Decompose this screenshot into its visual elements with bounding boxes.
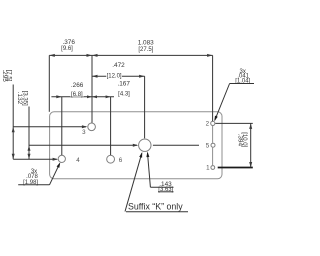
arrows .295 bbox=[12, 127, 15, 159]
svg-text:[7.5]: [7.5] bbox=[5, 70, 11, 82]
right extension line at hole1 level (thick) bbox=[218, 167, 253, 169]
svg-text:4: 4 bbox=[76, 157, 80, 164]
row extension line at hole4 level bbox=[13, 158, 57, 160]
shelf for .143 label bbox=[150, 186, 173, 188]
label .295 [7.5] (rotated) bbox=[1, 69, 12, 82]
dimension line .376 / 1.083 bbox=[49, 54, 212, 56]
leader to hole 2 bbox=[215, 84, 230, 121]
svg-text:[27.5]: [27.5] bbox=[138, 47, 153, 53]
arrow at hole4 left edge bbox=[53, 158, 59, 161]
arrows .132 bbox=[28, 145, 31, 159]
relay body outline bbox=[50, 112, 222, 179]
note Suffix K only bbox=[128, 202, 183, 212]
arrow at hole K left edge bbox=[133, 144, 139, 147]
arrow at .376 left bbox=[49, 54, 55, 57]
dimension line .266 / .167 bbox=[51, 96, 114, 98]
label 3x .041 [1.04] bbox=[235, 69, 250, 84]
hole 3 bbox=[88, 123, 96, 131]
pin number 6 bbox=[119, 157, 123, 164]
hole 1 bbox=[211, 166, 215, 170]
arrow .266 left (outside, apex at hole4 col) bbox=[56, 95, 62, 98]
extension line left of .376 bbox=[48, 55, 50, 111]
underline of [3.63] bbox=[158, 191, 174, 193]
hole 6 bbox=[107, 155, 115, 163]
row extension line at hole K level bbox=[29, 144, 137, 146]
arrows .472 bbox=[92, 75, 145, 78]
svg-text:1: 1 bbox=[206, 165, 210, 172]
svg-text:5: 5 bbox=[206, 142, 210, 149]
leader from .143 note to hole K bbox=[148, 153, 151, 187]
dimension line .394 (vertical) bbox=[250, 123, 252, 167]
arrows at hole3 column on top dim line bbox=[87, 54, 98, 57]
svg-text:1.083: 1.083 bbox=[138, 40, 154, 47]
arrowhead at hole K bottom left bbox=[139, 152, 142, 158]
svg-text:.472: .472 bbox=[112, 62, 125, 69]
svg-text:[9.6]: [9.6] bbox=[61, 46, 73, 52]
arrow at 1.083 right bbox=[207, 54, 213, 57]
extension line hole6 column bbox=[110, 97, 112, 155]
extension line hole3 column bbox=[91, 55, 93, 122]
arrowhead at hole K bottom right bbox=[146, 152, 149, 158]
pin number 1 bbox=[206, 165, 210, 172]
arrowhead at hole 4 bbox=[57, 162, 61, 168]
label .143 [3.63] bbox=[158, 181, 173, 193]
pin number 5 bbox=[206, 142, 210, 149]
arrow .167 right (apex at hole6 col) bbox=[106, 95, 111, 98]
white gap for [12.0] bbox=[106, 72, 122, 79]
svg-text:[12.0]: [12.0] bbox=[107, 74, 122, 80]
leader from Suffix note to hole K bbox=[125, 153, 142, 211]
hole 4 bbox=[58, 155, 65, 162]
label .376 [9.6] bbox=[61, 39, 75, 52]
label .394 [10.0] (rotated) bbox=[237, 132, 247, 147]
svg-text:[6.8]: [6.8] bbox=[71, 92, 83, 98]
row line hole K level right segment to pin 5 bbox=[153, 144, 199, 146]
svg-text:6: 6 bbox=[119, 157, 123, 164]
svg-text:.167: .167 bbox=[117, 81, 130, 88]
svg-text:Suffix “K” only: Suffix “K” only bbox=[128, 202, 183, 212]
extension line hole4 column bbox=[61, 97, 63, 155]
right extension line at hole2 level bbox=[215, 122, 252, 124]
pin number 3 bbox=[82, 129, 86, 136]
pin number 4 bbox=[76, 157, 80, 164]
shelf for .041 label bbox=[230, 83, 254, 85]
dimension line .295 (vertical) bbox=[12, 85, 14, 160]
label .132 [3.35] (rotated) bbox=[16, 91, 28, 106]
extension line hole K column bbox=[144, 76, 146, 138]
svg-text:[4.3]: [4.3] bbox=[118, 91, 130, 97]
white gap for [6.8] bbox=[70, 90, 83, 96]
shelf for .078 label bbox=[18, 184, 49, 186]
dimension line .472 bbox=[92, 75, 145, 77]
label 3x .078 [1.98] bbox=[23, 169, 38, 186]
svg-text:[10.0]: [10.0] bbox=[241, 132, 247, 147]
dimension line .132 (vertical) bbox=[28, 107, 30, 160]
hole 5 bbox=[211, 143, 215, 147]
label .167 [4.3] bbox=[117, 81, 130, 98]
hole K (large center hole) bbox=[139, 139, 151, 151]
label .472 [12.0] bbox=[107, 62, 126, 80]
arrows .394 bbox=[249, 123, 252, 167]
leader to hole 4 bbox=[50, 164, 60, 185]
label 1.083 [27.5] bbox=[138, 40, 154, 54]
row extension line at hole3 level bbox=[13, 126, 86, 128]
pin number 2 bbox=[206, 121, 210, 128]
svg-text:2: 2 bbox=[206, 121, 210, 128]
arrow at hole3 left edge bbox=[82, 125, 88, 128]
arrows at hole3 col on .266/.167 line bbox=[87, 95, 97, 98]
extension line hole2 column / centerline through right holes bbox=[212, 55, 214, 121]
label .266 [6.8] bbox=[71, 82, 84, 98]
arrowhead at hole 2 bbox=[214, 116, 217, 122]
svg-text:.266: .266 bbox=[71, 82, 84, 89]
hole 2 bbox=[211, 121, 215, 125]
svg-text:3: 3 bbox=[82, 129, 86, 136]
underline of Suffix note bbox=[126, 211, 188, 213]
svg-text:[3.35]: [3.35] bbox=[22, 91, 28, 106]
